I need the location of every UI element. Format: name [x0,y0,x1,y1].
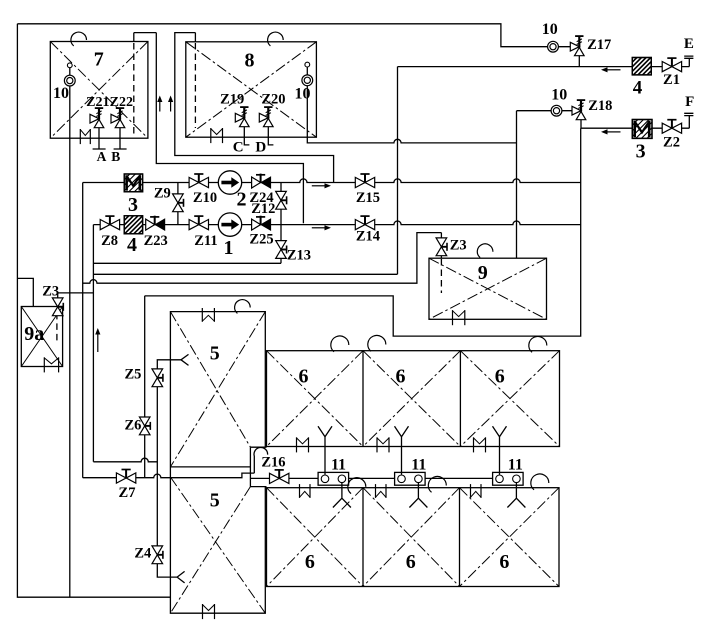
svg-text:Z11: Z11 [194,233,217,249]
manhole on tank 6 top-2 [377,437,389,452]
node tank5 upper nozzle fork [181,354,189,365]
tank 6 bottom row divider 1 [362,488,364,587]
wire: tank8 loop leg into tank top [194,33,196,42]
svg-text:Z15: Z15 [356,190,380,206]
svg-text:10: 10 [542,21,558,38]
heat exchanger 3 (right) [613,120,671,139]
valve Z21 with outlet A [90,108,104,128]
valve Z10 [189,174,208,188]
valve Z3 (tank 9a) [52,298,63,316]
wire: suction pipe with fork from tank 6 top cell 1 [318,426,332,474]
svg-text:B: B [111,149,120,164]
wire: discharge pipe with fork into tank 6 bottom cell 3 [507,483,525,508]
svg-text:Z14: Z14 [356,228,380,244]
wire: Z21 outlet drop to A [93,128,106,149]
svg-text:6: 6 [299,366,309,388]
manhole on tank 9 [453,310,465,325]
wire: tank7 internal dip tube (dashed) [133,43,135,135]
valve Z3 (tank 9) [436,238,447,256]
wire: Z19 outlet drop to C [244,127,249,145]
valve Z5 [152,369,163,387]
svg-text:11: 11 [508,457,523,474]
wire: tank8 gauge outlet to x=516.5 riser, y=142.9 [307,137,516,143]
tank 6 top-2 diagonals [363,351,460,447]
svg-text:7: 7 [94,49,104,71]
vent on tank 7 [71,32,87,46]
vent on tank 8 [268,32,284,46]
svg-text:Z23: Z23 [144,233,168,249]
manhole on tank 6 bottom-1 [300,484,311,498]
tank 9 [429,258,547,319]
vent on tank 6 bottom-2 [428,476,446,492]
svg-text:Z9: Z9 [154,186,171,202]
node E terminal cap [684,56,693,67]
wire: tank9a Z3 drop [57,293,59,307]
heat exchanger 3 (left) [106,174,163,192]
check valve Z23 [146,216,165,230]
wire: channel notch top [250,446,266,448]
wire: tank8 outlet loop over tank and run to pump header [175,33,334,183]
valve Z15 [355,174,374,188]
valve Z1 [662,58,681,72]
tank 6 bottom row divider 2 [459,488,461,587]
svg-text:Z21: Z21 [86,95,109,110]
wire: Z18 main vertical down, bottom run y=336 and Z6 feed header y=296 [145,128,581,336]
valve Z11 [189,216,208,230]
svg-text:F: F [685,94,694,110]
instrument 10 on Z18 line [551,105,562,116]
pump 1 [218,213,241,236]
svg-text:6: 6 [499,551,509,573]
wire: channel vent swan neck [254,447,268,473]
svg-text:A: A [97,149,107,164]
svg-text:1: 1 [224,237,234,259]
wire: tank9 internal dip tube (dashed) [440,259,442,293]
valve Z4 [152,546,163,564]
wire: header y=263.3 from Z8 vertical to Z13 drop [93,262,281,264]
svg-text:Z3: Z3 [450,238,467,254]
unit 11 box 2 [395,472,426,485]
valve Z7 [116,470,135,484]
svg-text:Z25: Z25 [249,232,273,248]
svg-text:Z13: Z13 [287,247,311,263]
wire: Z9 bypass vertical [177,183,179,225]
svg-text:2: 2 [237,189,247,211]
wire: Z22 outlet drop to B [114,128,127,149]
wire: Z12/Z13 vertical x=281 [280,183,282,264]
tank 8 [186,42,317,137]
svg-text:Z20: Z20 [261,91,285,107]
svg-text:4: 4 [633,78,643,99]
svg-text:10: 10 [551,87,567,104]
svg-text:3: 3 [128,194,138,216]
node tank5 lower nozzle fork [177,571,185,583]
wire: branch from left border to tank 9a feed [17,278,33,306]
wire: Z17 outlet drop [578,56,580,67]
valve Z9 [173,194,184,212]
vent on tank 6 bottom-3 [531,474,549,490]
svg-text:Z12: Z12 [251,201,275,217]
svg-text:Z22: Z22 [110,95,133,110]
vent on tank 6 top-3 [529,336,547,352]
wire: Z20 outlet drop to D [268,127,273,145]
wire: channel left edge [249,447,251,486]
unit 11 box 1 [318,472,349,485]
wire: suction pipe with fork from tank 6 top cell 3 [493,426,507,474]
wire: pump suction header y=182.5 from box3 line to Z18 vertical [83,179,581,183]
svg-text:E: E [684,36,694,52]
svg-text:11: 11 [411,457,426,474]
wire: header y=283.2 with riser to tank9 Z3 valve [83,233,442,284]
tank block 6 top row [267,351,560,447]
svg-text:Z1: Z1 [663,72,680,88]
svg-text:Z10: Z10 [193,190,217,206]
wire: tank7 gauge stem long vertical x=69.8 [69,68,71,598]
wire: Z6 feed drop x=144.7 down to Z7 line [144,296,146,478]
tank 6 bottom-3 diagonals [460,488,560,587]
svg-text:4: 4 [127,234,137,256]
vent on tank 6 top-1 [331,336,349,352]
wire: tank5 internal connection y=466.9 [170,466,250,468]
valve Z16 [270,470,289,484]
valve Z13 [276,241,287,259]
valve Z12 [276,191,287,209]
node F terminal cap [684,113,693,128]
valve Z6 [139,417,150,435]
valve Z20 with outlet D [259,107,273,127]
wire: Z5 branch with tank5 nozzle and Z4 run into tank [157,360,181,577]
svg-text:5: 5 [210,342,220,364]
wire: discharge pipe with fork into tank 6 bottom cell 2 [409,483,427,508]
valve Z2 [662,120,681,134]
wire: E riser down and return run to Z8 vertical [397,67,399,275]
wire: top border pipe from left border to Z17 line [17,24,570,47]
svg-text:D: D [255,140,266,156]
manhole on tank 8 [211,128,223,143]
valve Z14 [355,216,374,230]
tank 7 diagonals [50,42,148,139]
wire: channel distribution pipe to units 11 [250,477,523,479]
heat exchanger 4 (left) [106,216,161,234]
vent on tank 6 top-2 [368,335,386,351]
tank 6 top row divider 2 [459,351,461,447]
vent on tank 5 [235,300,251,314]
svg-text:9a: 9a [24,323,44,345]
svg-text:Z8: Z8 [101,233,118,249]
wire: tank9a Z3 line y=292.9 [58,292,94,294]
instrument 10 on Z17 line [548,41,559,52]
flow arrow up (riser 2) [168,96,173,112]
wire: tank9 Z3 drop into tank [440,233,442,259]
wire: tank8 internal dip tube (dashed) [194,43,196,128]
svg-text:Z2: Z2 [663,135,680,151]
tank 5 upper diagonals [170,312,265,467]
svg-text:5: 5 [210,489,220,511]
flow arrow right (pump 1 discharge) [312,225,331,230]
svg-text:11: 11 [331,457,346,474]
svg-text:Z5: Z5 [124,367,141,383]
wire: left border pipe down and bottom run to tank 5 [17,24,170,597]
manhole on tank 6 bottom-3 [471,484,482,498]
manhole on tank 5 bottom [203,604,215,619]
wire: tank8 gauge stem [306,67,308,137]
unit 11 box 3 [493,472,523,485]
valve Z22 with outlet B [111,108,125,128]
instrument 10 in tank 8 [302,75,313,86]
manhole on tank 7 [80,129,90,144]
tank block 6 bottom row [267,488,560,587]
tank 9 diagonals [429,258,547,319]
wire: riser x=516.5 from Z18 pipe down to tank 9 [516,111,518,259]
svg-text:10: 10 [53,85,69,102]
wire: box3 feed vertical x=82.7 down to Z7 pipe [82,183,84,478]
wire: channel notch bottom [250,486,266,488]
flow arrow up (left riser) [95,328,100,352]
wire: tank7 loop over tank [134,33,157,42]
svg-text:3: 3 [636,141,646,163]
wire: Z8 vertical x=93.4 down to y=461.8 run [92,225,94,462]
svg-text:C: C [233,140,244,156]
manhole on tank 5 top [202,308,214,322]
flow arrow left (E line) [601,67,621,72]
svg-text:10: 10 [295,85,311,102]
svg-text:6: 6 [495,366,505,388]
svg-text:Z17: Z17 [587,37,611,53]
svg-text:6: 6 [396,366,406,388]
wire: Z18 outlet drop [580,120,582,129]
tank 6 bottom-1 diagonals [267,488,364,587]
valve Z19 with outlet C [235,107,249,127]
svg-text:Z19: Z19 [220,91,244,107]
tank 6 top-3 diagonals [460,351,559,447]
vent on tank 6 bottom-1 [348,478,366,494]
manhole on tank 6 bottom-2 [376,484,387,498]
tank 9a diagonals [21,307,62,367]
svg-text:Z7: Z7 [119,485,136,501]
tank 6 bottom-2 diagonals [363,488,460,587]
wire: pump line y=224.6 from Z8 corner to Z18 vertical [93,221,580,225]
check valve Z25 [252,216,271,230]
valve Z8 [100,216,119,230]
svg-text:8: 8 [245,50,255,72]
vent on tank 9 [477,244,493,258]
svg-text:6: 6 [305,551,315,573]
tank 5 outline with channel gap [170,312,265,614]
wire: Z7 pipe through tank 5 with step-up to channel [83,473,255,478]
tank 7 [50,42,148,139]
wire: return header y=274 to pump suction vertical [93,273,397,275]
svg-text:Z18: Z18 [588,98,612,114]
valve Z18 [572,100,586,120]
wire: Z18 pipe y=110.7 [517,110,573,112]
flow arrow right (pump 2 discharge) [312,183,331,188]
pump 2 [218,171,241,194]
check valve Z24 [252,174,271,188]
tank 8 diagonals [186,42,317,137]
svg-text:Z16: Z16 [261,455,285,471]
wire: F supply line from Z18 drop to F terminal [581,127,690,129]
heat exchanger 4 (right) [615,58,669,75]
wire: tank9a internal dip tube (dashed) [56,313,58,343]
tank 5 lower diagonals [170,477,265,613]
manhole on tank 6 top-3 [474,437,486,452]
wire: E supply line from riser to E terminal [398,66,690,68]
flow arrow left (F line) [601,129,621,134]
valve Z17 [570,36,584,56]
wire: suction pipe with fork from tank 6 top cell 2 [395,426,409,474]
tank 6 top-1 diagonals [267,351,364,447]
svg-text:Z3: Z3 [42,284,59,300]
wire: tank7 outlet leg down, run y=163.5 and drop to pump line [156,33,303,224]
instrument 10 in tank 7 [64,75,75,86]
tank 9a [21,307,62,367]
tank 6 top row divider 1 [362,351,364,447]
svg-text:Z4: Z4 [134,546,151,562]
svg-text:9: 9 [478,262,488,284]
flow arrow up (riser 1) [157,96,162,112]
manhole on tank 9a [44,357,58,372]
svg-text:6: 6 [406,551,416,573]
wire: run y=461.8 from Z8 vertical to Z5 branch [93,458,157,462]
manhole on tank 6 top-1 [297,437,309,452]
svg-text:Z6: Z6 [124,418,141,434]
wire: discharge pipe with fork into tank 6 bottom cell 1 [333,483,351,508]
